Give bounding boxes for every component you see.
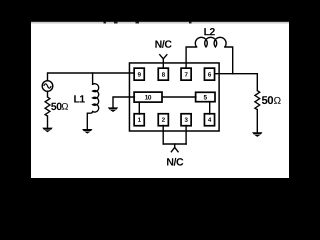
label L1 [74,95,85,102]
wire block 10 to block 5 [163,96,196,98]
wire pin 2 lead down [162,126,164,145]
wire pin 7 lead up to L2 [186,47,197,68]
ground (below right resistor) [252,132,262,137]
N/C symbol top (pin 8) [159,54,167,59]
wire L2 right lead down [225,47,233,74]
wire pin 8 lead up [162,59,164,69]
inductor L2 [195,37,226,47]
ground (below source) [42,128,52,133]
label L2 [204,28,215,35]
pin 8 [158,68,168,80]
label N/C top [155,40,171,48]
wire block 5 to pin 4 [209,102,211,114]
internal block 10 [134,92,162,102]
resistor 50 ohm left [45,97,50,116]
wire middle ground to block 10 [113,97,134,107]
wire pin 3 lead down [185,126,187,145]
white schematic canvas [31,22,289,178]
pin 2 [158,114,168,126]
N/C symbol bottom (pins 2,3) [171,147,179,152]
IC U1 package outline [129,63,219,131]
inductor L1 [87,84,98,129]
wire pin 6 to right resistor [215,74,258,91]
gray strip along top of canvas [31,22,289,24]
label N/C bottom [167,158,183,166]
pin 7 [181,68,191,80]
ground (middle, at block 10) [108,107,118,112]
ground (below L1) [82,129,92,134]
wire right resistor to ground [256,110,258,133]
pin 9 [134,68,144,80]
wire stub to bottom N/C [174,144,176,147]
cropped text remnant marks [104,22,192,24]
wire block 10 to pin 1 [138,102,140,114]
AC source V1 [42,81,53,92]
pin 3 [181,114,191,126]
wire L1 tap down [92,73,94,84]
resistor 50 ohm right [255,91,260,110]
label 50 ohm left [51,103,62,110]
label 50 ohm right [262,96,273,104]
wire resistor to ground [47,116,49,128]
pin 6 [204,68,214,80]
wire top-left: source top to pin 9 [48,73,135,81]
wire source bottom to resistor [47,91,49,97]
internal block 5 [196,92,215,101]
pin 1 [134,114,144,126]
wire joining pins 2,3 [163,143,186,145]
pin 4 [204,114,214,126]
